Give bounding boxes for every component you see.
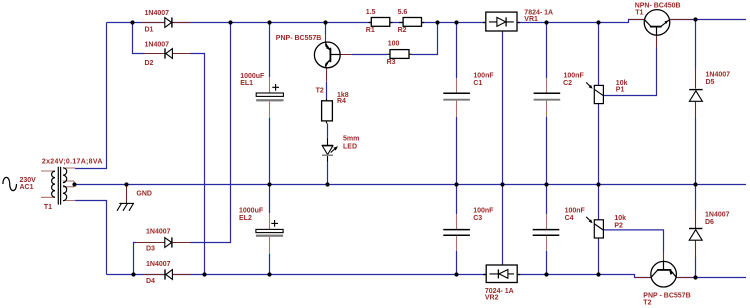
pin D3 leads: [136, 242, 191, 244]
LED: [322, 138, 338, 162]
node center tap: [72, 182, 76, 186]
node C1 top: [454, 20, 458, 24]
node T2mid emitter: [323, 20, 327, 24]
svg-text:C4: C4: [565, 215, 574, 222]
potentiometer P1: [586, 82, 603, 103]
pin transformer center tap leads: [63, 181, 74, 187]
svg-text:C3: C3: [473, 215, 482, 222]
pin C4 leads: [546, 214, 548, 251]
wire P1 top: [598, 23, 600, 86]
wire C4 vertical: [546, 185, 548, 215]
svg-text:100nF: 100nF: [473, 208, 494, 215]
svg-text:D1: D1: [145, 27, 154, 34]
wire D3 D4 anode corner: [134, 243, 137, 275]
pin transformer secondary leads: [63, 168, 75, 201]
svg-text:5.6: 5.6: [398, 9, 408, 16]
wire left top vertical (secondary top tap to +V rail): [75, 23, 107, 169]
svg-text:NPN- BC450B: NPN- BC450B: [635, 3, 681, 10]
node P2 bottom: [596, 272, 600, 276]
node P1 top: [596, 20, 600, 24]
pin EL2 leads: [269, 213, 271, 254]
wire D6 bottom to -V: [695, 257, 697, 278]
node C2 bottom: [544, 182, 548, 186]
node VR1 out: [544, 20, 548, 24]
wire C1 vertical: [456, 23, 458, 79]
svg-text:T2: T2: [316, 87, 324, 94]
svg-text:D3: D3: [146, 245, 155, 252]
svg-text:C2: C2: [563, 80, 572, 87]
svg-text:R4: R4: [337, 98, 346, 105]
ground symbol: [117, 203, 134, 210]
regulator VR2: [483, 265, 520, 283]
svg-text:R1: R1: [366, 27, 375, 34]
svg-text:C1: C1: [473, 80, 482, 87]
pin D1 leads: [141, 22, 191, 24]
pin T2 bottom-right leads: [635, 252, 691, 278]
wire P1 bottom to GND: [598, 104, 600, 185]
node D5 top: [693, 17, 697, 21]
svg-text:D5: D5: [706, 79, 715, 86]
pin T1 leads: [630, 20, 692, 48]
svg-text:VR1: VR1: [524, 16, 538, 23]
node C3 bottom: [454, 272, 458, 276]
wire T2mid base to R3: [352, 54, 388, 56]
diode D2: [165, 48, 172, 58]
svg-text:1N4007: 1N4007: [145, 41, 170, 48]
wire T2mid collector to R4: [326, 82, 328, 99]
node VR mid gnd: [500, 182, 504, 186]
capacitor C2: [534, 93, 561, 100]
node LED gnd: [325, 182, 329, 186]
node D5 D6 gnd: [693, 182, 697, 186]
pin C3 leads: [456, 214, 458, 251]
wire EL1 vertical: [269, 23, 271, 78]
resistor R1: [369, 18, 425, 27]
svg-text:R2: R2: [398, 27, 407, 34]
potentiometer P2: [586, 217, 603, 238]
wire P2 top: [598, 185, 600, 220]
svg-text:P1: P1: [616, 86, 625, 93]
node C1 bottom: [454, 182, 458, 186]
svg-text:P2: P2: [614, 222, 623, 229]
transformer core: [58, 167, 60, 205]
svg-text:VR2: VR2: [485, 295, 499, 302]
node EL1 top: [267, 20, 271, 24]
transistor T1 NPN top right: [644, 10, 670, 36]
svg-text:1N4007: 1N4007: [706, 72, 731, 79]
svg-text:GND: GND: [136, 191, 152, 198]
pin D6 leads: [695, 210, 697, 257]
node EL2 bottom: [267, 272, 271, 276]
diode D6: [689, 229, 702, 241]
node D3 D4: [131, 272, 135, 276]
wire D5 bottom to GND: [695, 118, 697, 185]
wire GND rail: [75, 184, 747, 186]
pin GND symbol lead: [126, 185, 128, 204]
svg-text:1N4007: 1N4007: [705, 212, 730, 219]
svg-text:1N4007: 1N4007: [146, 228, 171, 235]
node EL1 bottom: [267, 182, 271, 186]
wire EL2 vertical: [269, 185, 271, 214]
wire D1 D2 anode vertical: [133, 23, 145, 54]
svg-text:AC1: AC1: [20, 184, 34, 191]
capacitor + transformer leads salmon: [41, 77, 547, 254]
node GND symbol: [124, 182, 128, 186]
diode D3: [165, 237, 172, 247]
svg-text:LED: LED: [343, 143, 357, 150]
wire D5 top: [695, 20, 697, 69]
pin C1 leads: [456, 78, 458, 117]
pin D4 leads: [144, 274, 191, 276]
svg-text:T2: T2: [643, 300, 651, 307]
capacitor C1: [443, 93, 470, 100]
capacitor C3: [443, 230, 470, 236]
COMPONENT LEADS maroon: [127, 20, 696, 278]
pin D5 leads: [695, 69, 697, 119]
svg-text:230V: 230V: [20, 177, 37, 184]
svg-text:100nF: 100nF: [565, 208, 586, 215]
capacitor EL1: [256, 84, 283, 101]
resistor R3: [387, 50, 411, 59]
node D6 T2 emitter: [693, 275, 697, 279]
svg-text:EL2: EL2: [239, 215, 252, 222]
AC source sine symbol: [3, 177, 17, 190]
pin T2 mid leads: [326, 34, 352, 82]
node D1 D2 anodes: [130, 20, 134, 24]
wire D3 cathode riser: [191, 23, 231, 243]
wire GND to D6: [695, 185, 697, 211]
svg-text:100nF: 100nF: [564, 73, 585, 80]
svg-text:100nF: 100nF: [473, 72, 494, 79]
wire P1 wiper to T1 base: [603, 48, 656, 96]
node D2 D4 anodes: [202, 272, 206, 276]
svg-text:10k: 10k: [614, 215, 626, 222]
diode D4: [165, 269, 172, 279]
pin EL1 leads: [269, 77, 271, 118]
wire R3 riser to +V rail: [412, 23, 438, 55]
regulator VR1: [483, 12, 520, 31]
svg-text:5mm: 5mm: [343, 136, 359, 143]
svg-text:1000uF: 1000uF: [239, 208, 264, 215]
node C4 bottom: [544, 272, 548, 276]
svg-text:D2: D2: [145, 60, 154, 67]
transistor T2 PNP mid (LED driver): [314, 42, 340, 68]
wire +V rail: [107, 20, 747, 23]
node R3 riser: [435, 20, 439, 24]
svg-text:T1: T1: [44, 204, 52, 211]
wire VR1 VR2 middle pins: [502, 31, 504, 265]
transistor T2 PNP bottom right: [651, 261, 677, 287]
svg-text:1.5: 1.5: [366, 9, 376, 16]
svg-text:PNP - BC557B: PNP - BC557B: [643, 293, 690, 300]
capacitor C4: [533, 230, 560, 236]
wire P2 bottom: [598, 238, 600, 275]
svg-text:1N4007: 1N4007: [146, 261, 171, 268]
wire -V rail: [107, 275, 747, 278]
svg-text:1N4007: 1N4007: [145, 10, 170, 17]
wire T2mid emitter from +V rail: [325, 23, 327, 35]
svg-text:D6: D6: [705, 219, 714, 226]
wire left bottom vertical (secondary bottom tap to -V): [75, 201, 107, 275]
wire D2 cathode to -V rail: [191, 54, 205, 275]
transformer secondary bottom winding: [63, 186, 67, 201]
svg-text:R3: R3: [387, 59, 396, 66]
pin D2 leads: [145, 53, 191, 55]
transformer secondary top winding: [63, 168, 67, 183]
svg-text:PNP- BC557B: PNP- BC557B: [276, 35, 322, 42]
wire R4 to LED: [327, 123, 329, 137]
diode D1: [165, 17, 172, 27]
svg-text:T1: T1: [635, 10, 643, 17]
diode D5: [689, 90, 702, 102]
svg-text:EL1: EL1: [240, 80, 253, 87]
transformer primary winding: [52, 171, 55, 197]
svg-text:D4: D4: [146, 278, 155, 285]
svg-text:2x24V;0.17A;8VA: 2x24V;0.17A;8VA: [42, 158, 103, 165]
resistor R4: [322, 98, 333, 123]
transformer T1: [3, 167, 67, 205]
wire P2 wiper to T2 base: [603, 230, 663, 252]
wire LED cathode to GND rail: [327, 162, 329, 185]
node D1 D3 cathodes: [228, 20, 232, 24]
pin C2 leads: [546, 78, 548, 117]
wire C3 vertical: [456, 185, 458, 215]
node P1 bottom: [596, 182, 600, 186]
svg-text:100: 100: [388, 41, 400, 48]
capacitor EL2: [256, 220, 283, 237]
resistor R2: [403, 18, 421, 27]
pin transformer primary leads: [41, 171, 55, 197]
wire C2 vertical: [546, 23, 548, 79]
